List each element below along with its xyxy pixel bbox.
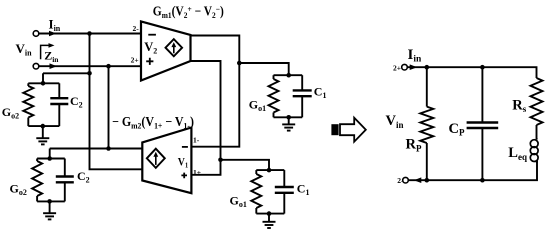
svg-text:2-: 2-: [132, 24, 139, 33]
svg-text:1+: 1+: [193, 168, 201, 177]
svg-text:2+: 2+: [131, 56, 139, 65]
svg-text:2-: 2-: [397, 176, 404, 185]
svg-text:2+: 2+: [393, 64, 401, 73]
svg-text:1-: 1-: [193, 136, 200, 145]
svg-text:− Gm2(V1+ − V1-): − Gm2(V1+ − V1-): [112, 114, 194, 131]
